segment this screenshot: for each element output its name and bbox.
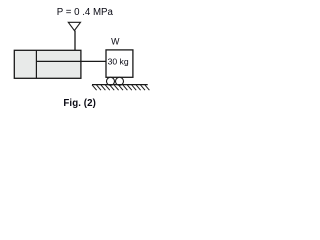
svg-text:W: W — [111, 37, 120, 47]
piston — [35, 50, 37, 78]
svg-text:P = 0 .4 MPa: P = 0 .4 MPa — [57, 7, 114, 18]
piston rod — [36, 60, 106, 62]
svg-text:Fig. (2): Fig. (2) — [63, 98, 96, 109]
block 30 kg — [106, 50, 133, 77]
ground line — [92, 84, 148, 86]
wheel left — [107, 77, 115, 85]
supply line — [74, 31, 76, 51]
ground hatching — [92, 85, 149, 90]
cylinder body — [14, 50, 81, 78]
pressure inlet triangle — [68, 22, 80, 30]
wheel right — [116, 77, 124, 85]
svg-text:30 kg: 30 kg — [108, 57, 129, 67]
